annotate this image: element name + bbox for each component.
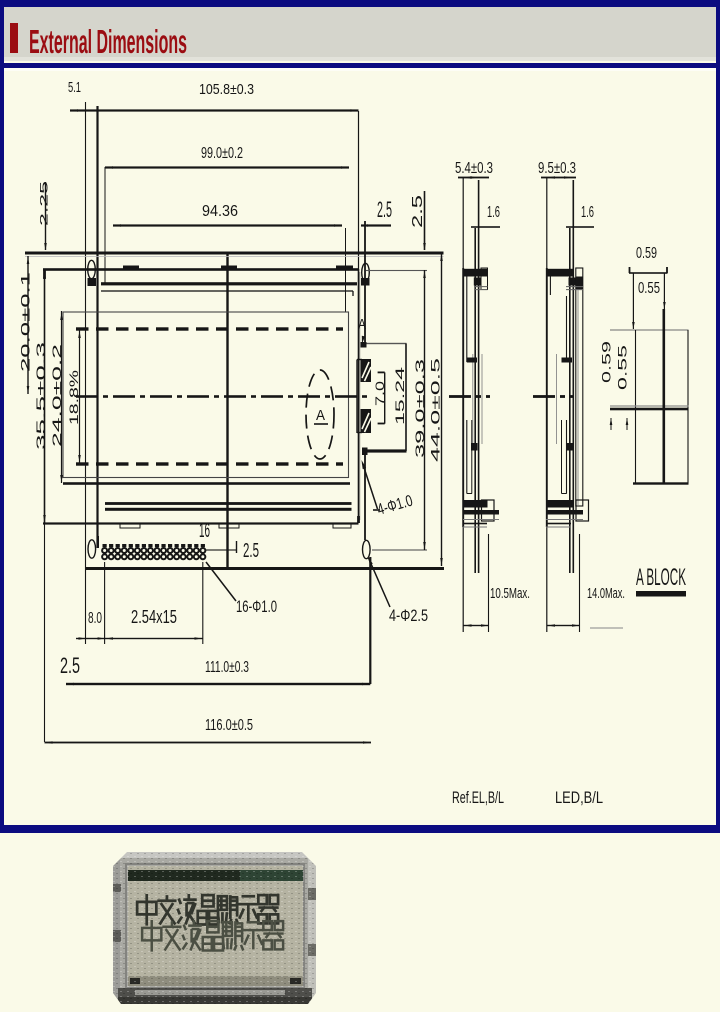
side1 bottom hook rect: [482, 500, 495, 521]
side2 center line: [533, 395, 555, 398]
svg-text:LED,B/L: LED,B/L: [555, 788, 603, 807]
side2 bottom flange lines: [546, 519, 583, 520]
side1 left extension long: [463, 178, 464, 632]
side2 frame inner return: [550, 276, 551, 295]
viewing area dashed top: [76, 327, 89, 330]
side2 top crimp black bar: [547, 269, 574, 277]
svg-text:2.5: 2.5: [409, 195, 426, 228]
Ablock mid thick line: [610, 405, 689, 406]
photo module right ear notches: [308, 888, 316, 900]
bezel tab 3: [336, 266, 353, 271]
bezel opening bottom thin line: [105, 502, 352, 505]
extension line x85 bottom: [85, 569, 86, 644]
dim line 99.0: [105, 166, 349, 168]
right extension for 111 dim: [369, 557, 371, 684]
bezel bottom cutout 2: [219, 524, 239, 529]
side2 dim line 1.6: [566, 226, 594, 228]
svg-text:94.36: 94.36: [202, 203, 238, 220]
svg-text:14.0Max.: 14.0Max.: [587, 585, 625, 602]
side2 dim line 14.0: [547, 625, 580, 626]
extension line x345 glass right: [345, 228, 346, 312]
panel bottom navy band: [0, 825, 720, 833]
bezel frame top edge: [43, 268, 359, 271]
extension line x97 pin1: [96, 106, 98, 548]
dim line 39.0: [424, 270, 425, 550]
side1 mid black step: [467, 358, 477, 363]
svg-text:1.6: 1.6: [487, 204, 500, 221]
photo screen top dark strip: [128, 870, 303, 881]
svg-text:1.6: 1.6: [581, 204, 594, 221]
svg-text:A: A: [316, 407, 325, 424]
svg-text:A BLOCK: A BLOCK: [636, 564, 686, 591]
svg-text:0.55: 0.55: [616, 344, 630, 390]
side1 bottom flange lines: [463, 519, 499, 520]
svg-text:105.8±0.3: 105.8±0.3: [199, 81, 254, 98]
glass outline: [63, 312, 349, 478]
side2 mid black step: [562, 358, 573, 363]
svg-text:0.55: 0.55: [638, 280, 660, 297]
photo LCD text ghost row: [142, 920, 161, 952]
mount hole bottom-right: [363, 540, 371, 558]
svg-text:4-Φ2.5: 4-Φ2.5: [389, 606, 428, 625]
detail ellipse A: [306, 370, 334, 459]
side1 PCB profile: [474, 228, 476, 573]
side2 bottom black bar 2: [547, 510, 583, 515]
Ablock dim line 0.59: [629, 272, 668, 274]
mount hole top-right: [362, 263, 370, 281]
svg-text:35.5±0.3: 35.5±0.3: [34, 341, 48, 450]
page right navy border: [716, 0, 720, 826]
bezel opening bottom thick line: [105, 508, 352, 511]
dim line 94.36: [113, 224, 342, 226]
Ablock bottom line: [633, 482, 689, 484]
svg-text:16-Φ1.0: 16-Φ1.0: [236, 597, 277, 616]
side1 lower black block: [471, 443, 478, 451]
side1 top black block: [474, 278, 481, 286]
EL pad 2: [361, 409, 372, 433]
dim 39.0 extension bottom: [372, 549, 427, 550]
EL pads left bracket: [356, 360, 357, 434]
Ablock leader arrows down: [633, 273, 634, 329]
dim line 2.25: [45, 182, 46, 250]
svg-text:39.0±0.3: 39.0±0.3: [413, 358, 427, 458]
svg-text:0.59: 0.59: [636, 245, 657, 262]
bezel opening top thin line: [101, 290, 353, 291]
svg-text:2.25: 2.25: [39, 181, 51, 226]
photo screen: [128, 866, 303, 986]
svg-text:16: 16: [199, 520, 210, 542]
pin 1 marker tick: [97, 536, 99, 548]
side1 center line: [449, 395, 471, 398]
page left navy border: [0, 0, 4, 826]
dim line 8.0: [76, 638, 105, 639]
dim line 44.0: [441, 253, 442, 566]
dim line 24.0: [61, 311, 62, 483]
left extension x44 bottom: [44, 523, 45, 742]
svg-text:5.1: 5.1: [68, 79, 81, 96]
side2 PCB profile: [569, 228, 571, 573]
photo screen bottom strip: [128, 976, 303, 986]
photo module left ear notches: [113, 884, 121, 892]
dim line 14.0 stub: [590, 627, 623, 628]
side2 top black block: [569, 278, 577, 286]
header navy separator: [0, 63, 720, 68]
side2 LED black parts: [576, 277, 583, 290]
pin holes row 16 pins: [103, 544, 107, 547]
bezel tab 2: [221, 266, 237, 271]
side1 dim line 1.6: [471, 226, 500, 228]
bezel opening top thick line: [101, 282, 357, 285]
PCB top edge: [25, 252, 444, 255]
dim 7.0 bracket: [384, 372, 385, 423]
side1 glass edges: [471, 354, 474, 444]
light vertical x360: [358, 272, 361, 520]
mount hole bottom-left: [88, 540, 96, 558]
dim line 105.8: [70, 109, 359, 111]
svg-text:111.0±0.3: 111.0±0.3: [205, 659, 249, 676]
side2 bottom hook rect: [576, 500, 589, 521]
side2 frame front face: [546, 268, 548, 527]
svg-text:44.0±0.5: 44.0±0.5: [429, 357, 443, 462]
Ablock top cell rect: [610, 329, 689, 330]
side2 glass edges: [555, 354, 558, 444]
svg-text:8.0: 8.0: [88, 610, 102, 627]
side1 dim line 10.5: [463, 625, 489, 626]
A BLOCK underline: [636, 591, 686, 597]
photo module outer metal frame: [113, 852, 316, 1004]
bezel bottom cutout 3: [333, 524, 351, 529]
dim line 18.8: [79, 329, 80, 464]
extension line pin16 bottom: [202, 562, 203, 644]
svg-text:Ref.EL,B/L: Ref.EL,B/L: [452, 788, 504, 807]
frame left edge: [44, 269, 46, 523]
svg-text:0.59: 0.59: [600, 340, 614, 383]
frame right edge: [358, 269, 360, 523]
svg-text:2.5: 2.5: [60, 653, 80, 678]
bezel corner tab top-right: [361, 278, 370, 286]
dim line 2.5 top: [361, 224, 391, 226]
side2 dim line 9.5: [541, 177, 576, 179]
viewing area dashed bottom: [76, 462, 89, 465]
extension line x105: [105, 167, 106, 283]
bezel tab 1: [123, 266, 139, 271]
page top navy band: [0, 0, 720, 7]
svg-text:9.5±0.3: 9.5±0.3: [538, 160, 576, 177]
dim line 2.5 rotated: [424, 191, 426, 250]
side1 bottom crimp black bar: [463, 500, 487, 508]
svg-text:2.5: 2.5: [243, 540, 259, 562]
dim line 20.0: [27, 256, 28, 394]
side1 frame front face: [462, 268, 464, 527]
Ablock small arrows: [610, 418, 613, 425]
side1 top step rect: [481, 268, 488, 290]
dim line 116.0: [45, 742, 372, 744]
side2 left extension long: [546, 178, 547, 632]
pin16 leader line: [206, 549, 237, 550]
EL bracket outline: [365, 343, 407, 344]
PCB bottom edge: [85, 567, 444, 570]
photo corner chamfers: [113, 852, 127, 866]
svg-text:2.5: 2.5: [377, 197, 392, 222]
side1 top crimp black bar: [463, 269, 487, 277]
header red bullet: [10, 23, 18, 53]
mount hole top-left: [88, 260, 96, 278]
dim line 2.54x15: [105, 638, 203, 639]
EL pad 1: [361, 359, 372, 382]
display center line: [76, 395, 98, 398]
leader 4-Φ2.5: [369, 558, 391, 607]
dim 39.0 extension top: [366, 270, 427, 271]
bezel corner tab top-left: [88, 278, 97, 286]
side1 bottom black bar 2: [463, 510, 499, 515]
svg-text:15.24: 15.24: [393, 366, 407, 425]
Ablock pin vertical: [663, 309, 666, 484]
PCB right edge: [364, 221, 366, 342]
bezel frame bottom edge: [43, 522, 359, 524]
svg-text:External Dimensions: External Dimensions: [29, 23, 187, 60]
side1 frame inner return: [466, 276, 467, 362]
glass bottom thick line: [63, 482, 350, 485]
svg-text:20.0±0.1: 20.0±0.1: [21, 272, 33, 372]
side2 lower black block: [566, 443, 573, 451]
side1 dim line 5.4: [458, 177, 489, 179]
extension line x358 frame right top: [358, 111, 359, 269]
photo bezel inner edge: [126, 864, 304, 988]
leader K arrow to 4-Φ1.0: [363, 463, 378, 509]
dim line 111.0: [66, 683, 370, 685]
side2 bottom crimp black bar: [547, 500, 574, 508]
svg-text:A: A: [358, 316, 366, 333]
leader 16-Φ1.0: [206, 562, 236, 601]
extension line pin1 bottom: [104, 562, 105, 644]
svg-text:10.5Max.: 10.5Max.: [490, 585, 530, 602]
header grey bar: [4, 7, 716, 60]
side2 LED housing rect: [576, 268, 583, 506]
svg-text:99.0±0.2: 99.0±0.2: [201, 145, 243, 162]
photo LCD text row main: [137, 894, 156, 926]
svg-text:5.4±0.3: 5.4±0.3: [455, 160, 493, 177]
svg-text:116.0±0.5: 116.0±0.5: [205, 717, 253, 734]
bezel bottom cutout 1: [120, 524, 140, 529]
svg-text:2.54x15: 2.54x15: [131, 607, 177, 627]
photo module bottom dark band: [118, 988, 312, 1004]
svg-text:7.0: 7.0: [375, 381, 387, 406]
vertical line x227: [226, 253, 228, 569]
extension line x85: [85, 102, 86, 569]
